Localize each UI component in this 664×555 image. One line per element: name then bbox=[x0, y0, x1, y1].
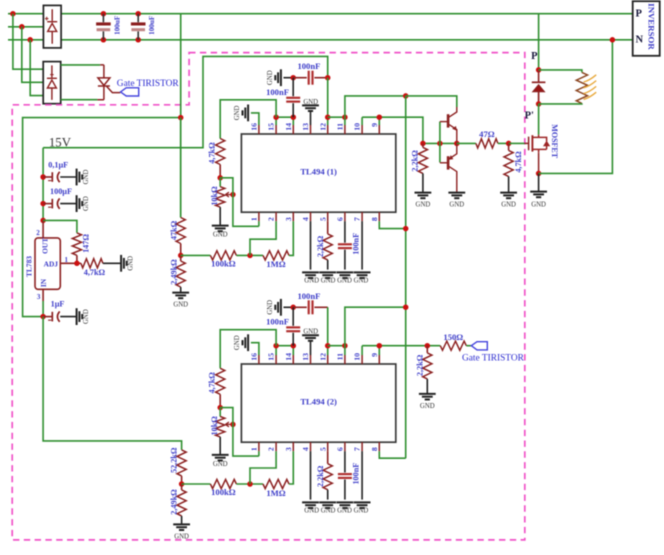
svg-text:GND: GND bbox=[173, 302, 188, 309]
node P top bbox=[536, 67, 542, 73]
wire source gnd bbox=[538, 173, 540, 191]
resistor 150 bbox=[440, 341, 466, 350]
resistor 47k bbox=[176, 218, 185, 244]
svg-text:6: 6 bbox=[336, 217, 345, 221]
ground pin cluster-2 x327.7 bbox=[319, 502, 336, 508]
node pin9-2 bbox=[377, 343, 383, 349]
capacitor 100uF reg bbox=[48, 198, 60, 208]
svg-text:4,7kΩ: 4,7kΩ bbox=[208, 372, 217, 394]
wire frame top bbox=[23, 118, 181, 317]
wire cap1 lead bbox=[43, 176, 52, 178]
svg-text:2,2kΩ: 2,2kΩ bbox=[415, 354, 424, 376]
svg-text:9: 9 bbox=[370, 353, 379, 357]
node N junction bbox=[610, 37, 616, 43]
regulator TL783 body bbox=[35, 238, 60, 289]
wire wiper to pin1-1 bbox=[220, 178, 259, 227]
node pin15-1 bbox=[273, 114, 279, 120]
ground pin16-1 bbox=[243, 105, 249, 122]
wire 147 bottom bbox=[76, 255, 78, 263]
wire pin2 stub bbox=[42, 220, 44, 238]
svg-text:1MΩ: 1MΩ bbox=[266, 488, 285, 498]
wire 1M to pin3-2 bbox=[289, 451, 293, 484]
wire pin12-pin11-2 bbox=[328, 345, 345, 347]
wire divider to 100k-1 bbox=[181, 254, 211, 256]
svg-text:GND: GND bbox=[174, 533, 189, 540]
svg-text:16: 16 bbox=[250, 123, 259, 131]
wire pin11 to vcc node bbox=[345, 96, 406, 117]
wire pin6-2 down bbox=[344, 451, 346, 472]
pin stubs TL494 (2) bbox=[259, 355, 379, 451]
wire 2,2k-2 top bbox=[426, 346, 428, 353]
svg-text:GND: GND bbox=[213, 461, 228, 468]
ground cap1 bbox=[77, 169, 83, 186]
ground pin cluster-2 x344.9 bbox=[337, 502, 354, 508]
wire pin15 stub up bbox=[275, 117, 277, 125]
wire cap2 lead bbox=[43, 203, 52, 205]
svg-text:52,2kΩ: 52,2kΩ bbox=[170, 447, 179, 473]
svg-text:10: 10 bbox=[353, 123, 362, 131]
svg-text:P: P bbox=[531, 51, 538, 62]
node fb divider-1 bbox=[178, 253, 184, 259]
wire 47k bottom bbox=[180, 244, 182, 256]
resistor 47 bbox=[476, 139, 498, 148]
svg-text:100kΩ: 100kΩ bbox=[211, 487, 236, 497]
wire wiper to pin1-2 bbox=[220, 408, 259, 457]
wire pot1 gnd bbox=[219, 207, 221, 226]
svg-text:10kΩ: 10kΩ bbox=[210, 186, 219, 206]
svg-text:0,1µF: 0,1µF bbox=[48, 161, 68, 170]
svg-text:9: 9 bbox=[370, 123, 379, 127]
pot wiper arrow 2 bbox=[225, 422, 233, 427]
wire pin5-2 down bbox=[327, 451, 329, 464]
wire base bus bbox=[423, 142, 457, 144]
svg-text:12: 12 bbox=[318, 353, 327, 361]
wire 1uF lead bbox=[43, 316, 52, 318]
wire cap1 gnd lead bbox=[60, 176, 76, 178]
svg-text:47kΩ: 47kΩ bbox=[170, 220, 179, 240]
wire pin7-2 down bbox=[361, 451, 363, 499]
svg-text:12: 12 bbox=[318, 123, 327, 131]
svg-text:1: 1 bbox=[250, 217, 259, 221]
wire 150 to connector bbox=[466, 345, 471, 347]
capacitor 100nF v-2 bbox=[286, 327, 300, 331]
wire 15V column bbox=[42, 148, 44, 221]
node pin8-1 join bbox=[403, 226, 409, 232]
wire pin14 stub up bbox=[292, 117, 294, 125]
wire 2,2k pin5-2 gnd bbox=[327, 490, 329, 500]
wire pin16 gnd bbox=[251, 113, 259, 125]
wire junction to pin2-1 bbox=[250, 221, 276, 255]
ground 2,2k base bbox=[415, 193, 432, 199]
svg-text:GND: GND bbox=[303, 99, 318, 106]
transistor Q2 pnp bbox=[440, 143, 457, 192]
node wiper-1 bbox=[230, 192, 236, 198]
wire 2,2k base gnd bbox=[422, 173, 424, 192]
wire 2,49k-2 leads bbox=[181, 484, 183, 490]
svg-text:OUT: OUT bbox=[41, 238, 50, 254]
svg-text:100nF: 100nF bbox=[266, 316, 289, 326]
resistor 4,7k dt-2 bbox=[216, 368, 225, 394]
svg-text:ADJ: ADJ bbox=[44, 259, 59, 268]
wire snubber top bbox=[539, 70, 582, 73]
svg-text:2,2kΩ: 2,2kΩ bbox=[411, 150, 420, 172]
node cap bottom bbox=[101, 37, 107, 43]
svg-text:INVERSOR: INVERSOR bbox=[647, 3, 657, 50]
node cap bottom bbox=[135, 37, 141, 43]
wire pin3 down bbox=[42, 301, 44, 317]
node IN 1uF bbox=[40, 314, 46, 320]
wire pot2 top bbox=[219, 408, 221, 417]
wire N rail right bbox=[61, 39, 633, 41]
svg-text:GND: GND bbox=[128, 256, 135, 271]
svg-text:2: 2 bbox=[36, 229, 40, 237]
svg-text:1: 1 bbox=[250, 447, 259, 451]
wire 15V rail bbox=[43, 56, 328, 147]
ground ADJ bbox=[121, 255, 127, 272]
svg-text:GND: GND bbox=[267, 70, 274, 85]
wire pin15-2 feed bbox=[220, 330, 276, 369]
wire cap2 gnd lead bbox=[60, 203, 76, 205]
svg-text:5: 5 bbox=[318, 447, 327, 451]
transistor Q1 npn bbox=[440, 107, 457, 143]
connector INVERSOR box bbox=[633, 1, 660, 56]
wire 4,7k gate top bbox=[508, 143, 510, 150]
connector Gate TIRISTOR 1 bbox=[121, 88, 139, 96]
wire pin12-pin11 bbox=[328, 116, 345, 118]
svg-text:4: 4 bbox=[301, 447, 310, 451]
svg-text:8: 8 bbox=[370, 447, 379, 451]
svg-text:147Ω: 147Ω bbox=[81, 234, 90, 253]
node 2,2k-150 bbox=[425, 343, 431, 349]
wire P rail right bbox=[61, 13, 633, 15]
node cap top bbox=[101, 11, 107, 17]
resistor 52,2k bbox=[177, 450, 186, 476]
node wiper-2 bbox=[230, 422, 236, 428]
wire pin8-2 bbox=[379, 451, 405, 458]
wire junction to pin2-2 bbox=[250, 451, 276, 484]
svg-text:2: 2 bbox=[267, 217, 276, 221]
wire 4,7k gnd lead bbox=[103, 262, 121, 264]
wire bridge2 feed 1 bbox=[13, 14, 43, 69]
svg-text:P': P' bbox=[525, 111, 534, 122]
capacitor 100nF h-2 bbox=[309, 300, 313, 314]
ground mosfet bbox=[530, 192, 547, 198]
svg-text:2: 2 bbox=[267, 447, 276, 451]
node gate bbox=[506, 141, 512, 147]
wire pin15-pin14 bbox=[276, 116, 293, 118]
wire pot2 gnd bbox=[219, 437, 221, 455]
wire pin16-2 gnd bbox=[251, 343, 259, 355]
svg-text:7: 7 bbox=[353, 217, 362, 221]
wire 2,49k-1 gnd bbox=[180, 287, 182, 293]
ground pot-1 bbox=[212, 226, 229, 232]
capacitor 1uF bbox=[48, 311, 60, 321]
wire caph leads-1 bbox=[293, 77, 307, 79]
wire 2,2k base top bbox=[422, 143, 424, 147]
wire pin14-2 stub up bbox=[292, 346, 294, 355]
svg-text:7: 7 bbox=[353, 447, 362, 451]
svg-text:IN: IN bbox=[39, 278, 48, 287]
wire pin8-1 bbox=[379, 221, 405, 228]
transistor MOSFET bbox=[525, 135, 550, 174]
wire snubber bottom bbox=[539, 102, 582, 105]
wire caph leads-2 bbox=[293, 306, 307, 308]
svg-text:TL494 (1): TL494 (1) bbox=[300, 167, 337, 177]
wire C-net vertical bbox=[405, 96, 407, 458]
op-amp TL494 (2) body bbox=[241, 364, 395, 442]
wire pin10-9-2 to 150 bbox=[362, 345, 440, 347]
node pin12-2 bbox=[325, 343, 331, 349]
wire caph right-2 bbox=[314, 306, 327, 308]
ground pin cluster-1 x310.5 bbox=[302, 272, 319, 278]
wire bridge2 to thyristor top bbox=[61, 64, 100, 66]
resistor snubber bbox=[576, 72, 587, 103]
wire pin10-2 stub up bbox=[361, 346, 363, 355]
wire pin12 riser-1 bbox=[327, 78, 329, 125]
node 15V cap1 bbox=[40, 174, 46, 180]
wire pin15 feed bbox=[220, 100, 276, 139]
node 2,2k base bbox=[420, 141, 426, 147]
wire pin15-2 stub up bbox=[275, 346, 277, 355]
ground 2,2k-2 bbox=[419, 394, 436, 400]
svg-text:GND: GND bbox=[531, 201, 546, 208]
wire capv top lead-1 bbox=[292, 78, 294, 97]
wire pin10 stub up bbox=[361, 117, 363, 125]
pot wiper arrow 1 bbox=[225, 192, 233, 197]
resistor 4,7k TL783 bbox=[81, 259, 103, 268]
resistor 4,7k dt-1 bbox=[216, 139, 225, 165]
node pin11-2 bbox=[342, 343, 348, 349]
svg-text:4,7kΩ: 4,7kΩ bbox=[514, 151, 523, 173]
pink dashed boundary bbox=[12, 53, 525, 540]
svg-text:2,2kΩ: 2,2kΩ bbox=[316, 235, 325, 257]
resistor 147 bbox=[72, 233, 81, 255]
node P bottom bbox=[536, 101, 542, 107]
svg-text:4: 4 bbox=[301, 217, 310, 221]
svg-text:10kΩ: 10kΩ bbox=[210, 416, 219, 436]
wire N rail left bbox=[8, 39, 43, 41]
wire capv top lead-2 bbox=[292, 307, 294, 326]
wire 2,2k-2 gnd bbox=[426, 379, 428, 394]
svg-text:13: 13 bbox=[301, 353, 310, 361]
ground divider-1 bbox=[172, 293, 189, 299]
svg-text:100nF: 100nF bbox=[266, 87, 289, 97]
svg-text:2,49kΩ: 2,49kΩ bbox=[170, 489, 179, 515]
ground pin cluster-2 x362.1 bbox=[354, 502, 371, 508]
wire 100nF pin6-2 gnd bbox=[344, 480, 346, 500]
svg-text:11: 11 bbox=[336, 123, 345, 130]
node C-net top bbox=[403, 93, 409, 99]
node source bbox=[536, 171, 542, 177]
wire 47 to gate node bbox=[498, 142, 509, 144]
wire P' to drain bbox=[538, 104, 540, 135]
svg-text:47Ω: 47Ω bbox=[479, 129, 495, 139]
svg-text:1µF: 1µF bbox=[51, 300, 65, 309]
wire pin9-2 stub up bbox=[378, 346, 380, 355]
wire 1M to pin3-1 bbox=[289, 221, 293, 255]
node frame junction bbox=[178, 115, 184, 121]
capacitor 100nF v-1 bbox=[286, 98, 300, 102]
svg-text:TL783: TL783 bbox=[25, 256, 34, 277]
wire pin3 stub bbox=[42, 289, 44, 301]
wire gnd to capnode-2 bbox=[284, 306, 294, 308]
diode freewheel bbox=[532, 82, 546, 104]
svg-text:N: N bbox=[636, 35, 644, 46]
svg-text:3: 3 bbox=[284, 447, 293, 451]
wire 100k-1M join bbox=[236, 254, 263, 256]
resistor 2,49k-1 bbox=[176, 261, 185, 287]
node bases bbox=[437, 141, 443, 147]
svg-text:GND: GND bbox=[234, 105, 241, 120]
svg-text:GND GND GND GND: GND GND GND GND bbox=[304, 278, 368, 285]
ground 4,7k gate bbox=[500, 193, 517, 199]
ground pot-2 bbox=[212, 455, 229, 461]
wire 4,7k to pot-2 bbox=[219, 394, 221, 407]
wire 4,7k to pot-1 bbox=[219, 165, 221, 178]
node TL783 OUT bbox=[40, 218, 46, 224]
ground divider-2 bbox=[173, 524, 190, 530]
wire gate node to mosfet bbox=[509, 142, 525, 144]
ground pin16-2 bbox=[243, 334, 249, 351]
wire pin11 stub up bbox=[344, 117, 346, 125]
wire pin11-2 riser bbox=[345, 307, 406, 355]
wire 2,2k pin5-1 gnd bbox=[327, 260, 329, 270]
svg-text:3: 3 bbox=[284, 217, 293, 221]
wire pin10-9 to base node bbox=[362, 117, 423, 143]
resistor 2,2k pin5-1 bbox=[323, 234, 332, 260]
wire bridge2 feed 2 bbox=[22, 27, 43, 83]
wire source to N bbox=[539, 40, 613, 174]
svg-text:P: P bbox=[636, 9, 643, 20]
ground Q2 bbox=[448, 193, 465, 199]
svg-text:GND: GND bbox=[267, 300, 274, 315]
wire 100nF pin6-1 gnd bbox=[344, 250, 346, 270]
wire 2,49k-2 gnd bbox=[181, 516, 183, 525]
bridge rectifier B1 bbox=[43, 5, 61, 48]
wire 47k top bbox=[180, 118, 182, 218]
wire pin4-1 down bbox=[310, 221, 312, 269]
ground pin cluster-1 x344.9 bbox=[337, 272, 354, 278]
wire pin7-1 down bbox=[361, 221, 363, 269]
node capnode-2 bbox=[290, 305, 296, 311]
svg-text:GND: GND bbox=[501, 201, 516, 208]
potentiometer 10k-2 bbox=[216, 417, 225, 437]
node caph right-1 bbox=[325, 75, 331, 81]
wire ADJ pin bbox=[60, 262, 81, 264]
ground cap2 bbox=[77, 195, 83, 212]
wire base riser bbox=[439, 122, 441, 144]
ground 100nF-2 bbox=[275, 299, 281, 316]
resistor 1M-1 bbox=[263, 251, 289, 260]
svg-text:MOSFET: MOSFET bbox=[550, 124, 559, 158]
node mid rail junction bbox=[19, 24, 25, 30]
svg-text:15: 15 bbox=[267, 123, 276, 131]
wire vcc to Q1 collector bbox=[406, 96, 457, 107]
svg-text:GND GND GND GND: GND GND GND GND bbox=[304, 508, 368, 515]
node N rail junction bbox=[27, 37, 33, 43]
node 4,7k/10k-2 bbox=[217, 405, 223, 411]
svg-text:TL494 (2): TL494 (2) bbox=[300, 397, 337, 407]
svg-text:2,2kΩ: 2,2kΩ bbox=[316, 465, 325, 487]
svg-text:GND: GND bbox=[416, 201, 431, 208]
wire rail1 drop x180 bbox=[180, 14, 182, 218]
wire diode cathode bbox=[538, 70, 540, 82]
svg-text:4,7kΩ: 4,7kΩ bbox=[208, 142, 217, 164]
node 100k/1M-1 bbox=[247, 253, 253, 259]
svg-text:2,49kΩ: 2,49kΩ bbox=[170, 259, 179, 285]
wire 100k-1M join-2 bbox=[236, 483, 263, 485]
thyristor SCR1 bbox=[97, 65, 120, 100]
node pin12-1 bbox=[325, 114, 331, 120]
node emitters bbox=[454, 141, 460, 147]
wire IN column down bbox=[43, 317, 182, 450]
svg-text:GND: GND bbox=[303, 329, 318, 336]
svg-text:1MΩ: 1MΩ bbox=[266, 259, 285, 269]
resistor 4,7k gate bbox=[504, 150, 513, 176]
snubber arrows bbox=[584, 75, 597, 100]
wire P rail bbox=[8, 13, 43, 15]
wire pin1-1 stub bbox=[258, 221, 260, 226]
resistor 2,2k pulldown-2 bbox=[423, 353, 432, 379]
svg-text:150Ω: 150Ω bbox=[443, 332, 463, 342]
ground 1uF bbox=[77, 308, 83, 325]
svg-text:100kΩ: 100kΩ bbox=[211, 259, 236, 269]
ground pin cluster-2 x310.5 bbox=[302, 502, 319, 508]
op-amp TL494 (1) body bbox=[241, 134, 395, 212]
capacitor 100uF bbox=[131, 14, 146, 40]
wire 147 top bbox=[43, 220, 77, 233]
wire divider to 100k-2 bbox=[182, 483, 211, 485]
svg-text:GND: GND bbox=[449, 201, 464, 208]
node P rail junction bbox=[10, 11, 16, 17]
wire 2,49k-1 leads bbox=[180, 255, 182, 261]
pin stubs TL494 (1) bbox=[259, 125, 379, 221]
ground pin13-1 bbox=[302, 105, 319, 125]
wire thyristor bottom to bridge2 bbox=[61, 99, 98, 101]
node 100k/1M-2 bbox=[247, 481, 253, 487]
wire pin12 riser-2 bbox=[327, 307, 329, 355]
capacitor 100uF bbox=[96, 14, 111, 40]
wire caph right-1 bbox=[314, 77, 327, 79]
ground 100nF-1 bbox=[275, 69, 281, 86]
bridge rectifier B2 bbox=[43, 62, 61, 104]
capacitor 100nF pin6-1 bbox=[338, 244, 352, 248]
node ADJ bbox=[74, 261, 80, 267]
svg-text:Gate TIRISTOR: Gate TIRISTOR bbox=[462, 354, 525, 364]
svg-text:100nF: 100nF bbox=[297, 61, 320, 71]
resistor 100k-1 bbox=[210, 251, 236, 260]
node pin14-1 bbox=[291, 114, 297, 120]
svg-text:100uF: 100uF bbox=[148, 15, 156, 35]
svg-text:14: 14 bbox=[284, 123, 293, 131]
resistor 2,2k pin5-2 bbox=[323, 464, 332, 490]
wire pin15-pin14-2 bbox=[276, 345, 293, 347]
node pin15-2 bbox=[273, 343, 279, 349]
svg-text:16: 16 bbox=[250, 353, 259, 361]
svg-text:13: 13 bbox=[301, 123, 310, 131]
connector Gate TIRISTOR 2 bbox=[471, 342, 487, 350]
wire bridge2 feed 3 bbox=[30, 40, 43, 96]
wire P drop bbox=[538, 14, 540, 70]
wire capv bot lead-2 bbox=[292, 333, 294, 346]
node 15V cap2 bbox=[40, 201, 46, 207]
svg-text:11: 11 bbox=[336, 353, 345, 360]
wire 4,7k gate gnd bbox=[508, 176, 510, 192]
wire pot1 top bbox=[219, 178, 221, 187]
ground pin cluster-1 x327.7 bbox=[319, 272, 336, 278]
svg-text:100µF: 100µF bbox=[50, 187, 72, 196]
node fb divider-2 bbox=[179, 481, 185, 487]
